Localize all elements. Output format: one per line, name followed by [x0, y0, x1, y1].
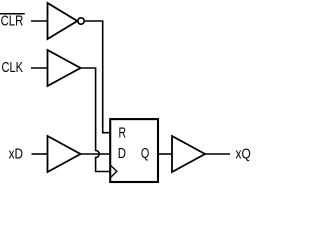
svg-text:Q: Q [141, 145, 149, 162]
wire CLK input [31, 67, 48, 69]
svg-text:D: D [118, 145, 126, 162]
svg-text:xD: xD [9, 146, 24, 163]
wire xD buffer output to D pin [81, 153, 111, 155]
inverter U1 (CLR buffer with bubble) [48, 3, 85, 39]
buffer U5 (output buffer) [172, 136, 205, 172]
buffer U2 (CLK buffer) [48, 50, 81, 86]
wire CLR inverter output to R pin [84, 21, 110, 133]
wire CLR input [31, 20, 48, 22]
wire Q output to buffer [158, 153, 172, 155]
svg-text:R: R [119, 124, 127, 141]
flip-flop U4 (D flip-flop body) [110, 119, 158, 182]
svg-text:CLK: CLK [2, 59, 24, 76]
svg-text:CLR: CLR [1, 13, 24, 30]
wire xD input [32, 153, 48, 155]
pin CLK edge-trigger symbol [111, 165, 117, 177]
buffer U3 (xD buffer) [48, 136, 81, 172]
svg-text:xQ: xQ [236, 145, 251, 162]
node CLR (label with overbar) [0, 13, 25, 30]
wire buffer output to xQ [205, 153, 230, 155]
wire CLK buffer output to clock pin (hops over D wire) [81, 68, 111, 172]
